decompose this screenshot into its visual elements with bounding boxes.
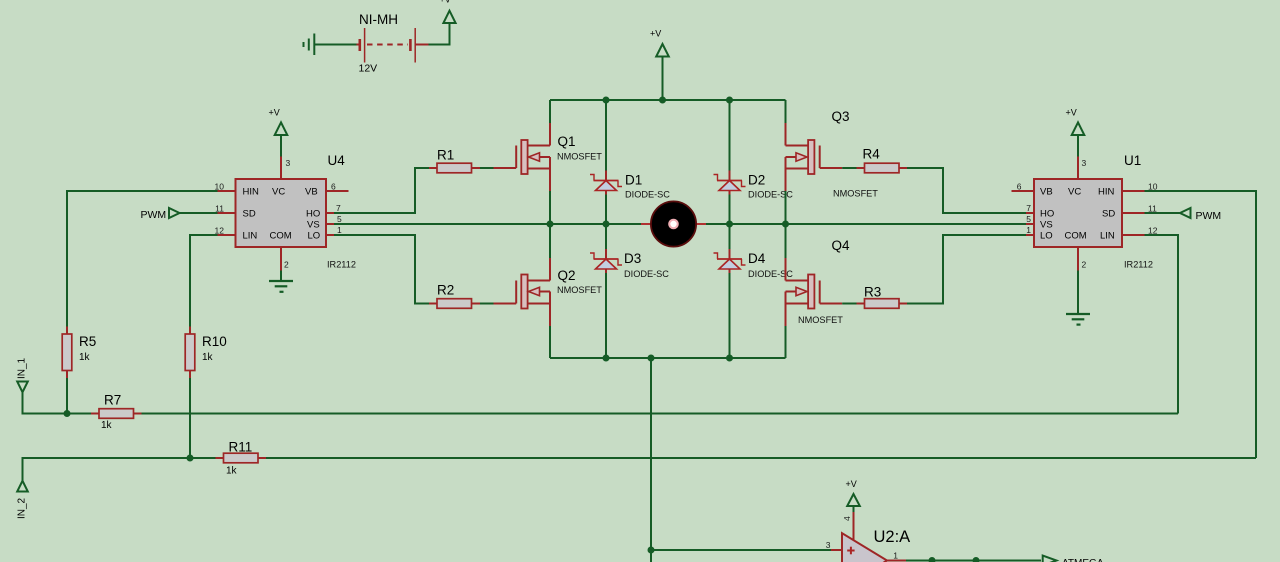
svg-text:U4: U4 (328, 153, 346, 168)
svg-text:1k: 1k (202, 352, 214, 363)
terminal IN_2 (17, 481, 28, 492)
wire battery-pos to +V (415, 44, 428, 46)
motor pin stubs (641, 223, 652, 225)
wire op-amp output to ATMEGA (906, 560, 1041, 562)
svg-text:4: 4 (842, 516, 852, 521)
terminal ATMEGA (1043, 556, 1057, 562)
power +V (battery) (443, 11, 455, 23)
wire op-amp +input (651, 549, 832, 551)
svg-text:1: 1 (337, 225, 342, 235)
svg-text:DIODE-SC: DIODE-SC (624, 269, 669, 279)
node out A (929, 557, 936, 562)
svg-text:6: 6 (1017, 182, 1022, 192)
node mid D2 (726, 221, 733, 228)
battery NI-MH cell 2 (410, 28, 415, 63)
svg-text:COM: COM (270, 231, 292, 242)
battery NI-MH cell 1 (360, 28, 365, 63)
wire R5 to junction (66, 378, 68, 414)
motor (651, 201, 696, 246)
svg-text:Q1: Q1 (558, 134, 576, 149)
wire D2 (729, 100, 731, 171)
node opamp in (648, 547, 655, 554)
svg-text:NI-MH: NI-MH (359, 12, 398, 27)
U4 pin stubs (218, 157, 349, 271)
wire R11 to U1.HIN drop (266, 457, 1256, 459)
svg-text:+V: +V (846, 479, 857, 489)
wire U2 pin4 to +V (853, 506, 855, 512)
svg-text:1k: 1k (101, 420, 113, 431)
wire Q4 gate to R3 (842, 303, 856, 305)
svg-text:7: 7 (336, 203, 341, 213)
svg-text:10: 10 (1148, 182, 1158, 192)
svg-text:NMOSFET: NMOSFET (557, 152, 602, 162)
transistor Q1 (494, 134, 603, 174)
diode D1 (590, 171, 670, 200)
svg-text:Q4: Q4 (832, 238, 851, 253)
svg-text:PWM: PWM (1196, 210, 1222, 222)
transistor Q2 (494, 268, 603, 308)
wire Q3 drain up (785, 100, 787, 123)
resistor R5 (62, 327, 96, 379)
svg-text:VS: VS (1040, 220, 1053, 231)
resistor R1 (429, 148, 480, 173)
wire R7 to U1.LIN drop (142, 413, 1179, 415)
wire stub below junction A (931, 561, 933, 562)
wire Q4 drain up (785, 224, 787, 258)
wire U1.LIN right and down (1145, 235, 1179, 414)
node R10/R11 (187, 455, 194, 462)
node out B (973, 557, 980, 562)
svg-text:2: 2 (1082, 260, 1087, 270)
svg-text:+V: +V (269, 108, 280, 118)
wire IN_2 to R11 line (23, 458, 216, 481)
svg-text:R3: R3 (864, 285, 881, 300)
svg-text:+V: +V (1066, 108, 1077, 118)
power +V (U4) (275, 122, 288, 135)
svg-text:3: 3 (286, 158, 291, 168)
svg-text:U2:A: U2:A (874, 528, 911, 546)
node top D1 (603, 97, 610, 104)
wire Q2 source down (549, 292, 551, 327)
wire Q3 source down (785, 157, 787, 191)
svg-text:2: 2 (284, 260, 289, 270)
wire top rail (550, 99, 786, 101)
wire U4.VC to +V (280, 135, 282, 157)
resistor R10 (185, 327, 227, 379)
svg-text:LO: LO (1040, 231, 1053, 242)
wire battery-neg (314, 44, 356, 46)
svg-text:IR2112: IR2112 (327, 260, 356, 270)
power +V (U2) (847, 494, 860, 506)
svg-text:1: 1 (893, 551, 898, 561)
svg-text:LIN: LIN (1100, 231, 1115, 242)
wire U1.VC to +V (1077, 135, 1079, 157)
resistor R2 (429, 283, 480, 309)
chip U4 body (IR2112) (236, 179, 327, 247)
svg-text:PWM: PWM (141, 209, 167, 221)
power +V (bridge) (656, 44, 669, 57)
wire +V drop (bridge) (662, 57, 664, 101)
svg-text:HO: HO (1040, 209, 1054, 220)
terminal IN_1 (17, 382, 28, 393)
svg-text:D2: D2 (748, 173, 765, 188)
svg-text:R1: R1 (437, 148, 454, 163)
svg-text:COM: COM (1065, 231, 1087, 242)
wire R10 to junction (189, 378, 191, 458)
svg-text:NMOSFET: NMOSFET (833, 189, 878, 199)
battery dashed link (367, 44, 408, 46)
ground (U4) (269, 281, 293, 292)
svg-text:11: 11 (215, 204, 224, 214)
wire U4.HIN to R5 (67, 191, 218, 327)
svg-text:5: 5 (1026, 214, 1031, 224)
svg-text:R11: R11 (229, 440, 253, 455)
svg-text:IN_2: IN_2 (17, 497, 28, 519)
wire U4.LIN to R10 (190, 235, 218, 327)
svg-text:VC: VC (272, 187, 285, 198)
wire D3 (605, 224, 607, 249)
svg-text:R5: R5 (79, 334, 96, 349)
wire R3 to U1.LO (907, 235, 1026, 304)
wire D4 (729, 224, 731, 249)
svg-text:LIN: LIN (243, 231, 258, 242)
svg-text:Q2: Q2 (558, 268, 576, 283)
svg-text:LO: LO (308, 231, 321, 242)
svg-text:DIODE-SC: DIODE-SC (625, 190, 670, 200)
wire PWM to U4.SD (180, 212, 218, 214)
svg-text:D1: D1 (625, 173, 642, 188)
wire bottom rail (550, 357, 786, 359)
svg-text:HO: HO (306, 209, 320, 220)
svg-text:12: 12 (215, 226, 225, 236)
svg-text:5: 5 (337, 214, 342, 224)
wire U1.COM to ground (1077, 270, 1079, 314)
terminal PWM (right) (1180, 208, 1191, 218)
svg-text:NMOSFET: NMOSFET (798, 315, 843, 325)
node mid D1 (603, 221, 610, 228)
svg-text:D4: D4 (748, 251, 766, 266)
svg-text:3: 3 (1082, 158, 1087, 168)
svg-text:3: 3 (826, 540, 831, 550)
svg-text:+V: +V (440, 0, 451, 5)
svg-text:HIN: HIN (243, 187, 260, 198)
svg-text:10: 10 (215, 182, 225, 192)
wire D1 (605, 100, 607, 171)
resistor R11 (216, 440, 267, 477)
svg-text:VC: VC (1068, 187, 1081, 198)
wire U1.SD to PWM (1145, 212, 1181, 214)
wire Q4 source down (785, 292, 787, 327)
wire Q1 drain up (549, 100, 551, 123)
svg-text:R4: R4 (863, 147, 881, 162)
svg-text:Q3: Q3 (832, 109, 850, 124)
wire Q3 gate to R4 (842, 167, 856, 169)
resistor R3 (857, 285, 908, 309)
wire Q2 drain up (549, 224, 551, 258)
svg-text:SD: SD (243, 209, 256, 220)
svg-text:IR2112: IR2112 (1124, 260, 1153, 270)
diode D3 (590, 249, 669, 279)
svg-text:SD: SD (1102, 209, 1115, 220)
wire R1 to Q1 gate (480, 167, 494, 169)
svg-text:R2: R2 (437, 283, 454, 298)
wire R4 to U1.HO (907, 168, 1026, 213)
svg-text:7: 7 (1026, 203, 1031, 213)
svg-text:R10: R10 (202, 334, 227, 349)
U1 pin stubs (1012, 157, 1145, 271)
diode D2 (714, 171, 794, 200)
svg-text:VB: VB (1040, 187, 1053, 198)
node bot D4 (726, 355, 733, 362)
transistor Q3 (786, 109, 879, 199)
wire Q1 source down (549, 157, 551, 191)
power +V (U1) (1072, 122, 1085, 135)
svg-text:6: 6 (331, 182, 336, 192)
transistor Q4 (786, 238, 851, 325)
svg-text:12: 12 (1148, 226, 1158, 236)
svg-text:1k: 1k (79, 352, 91, 363)
op-amp U2:A (826, 512, 910, 562)
chip U1 body (1034, 179, 1122, 247)
ground (U1) (1066, 314, 1090, 325)
wire stub below junction B (975, 561, 977, 562)
svg-text:NMOSFET: NMOSFET (557, 285, 602, 295)
svg-text:1k: 1k (226, 466, 238, 477)
svg-text:12V: 12V (359, 63, 378, 75)
svg-text:ATMEGA: ATMEGA (1062, 558, 1104, 562)
svg-text:+V: +V (650, 29, 661, 39)
wire R2 to Q2 gate (480, 303, 494, 305)
svg-text:D3: D3 (624, 251, 641, 266)
node mid Q3 (782, 221, 789, 228)
svg-text:VS: VS (307, 220, 320, 231)
wire U4.LO to R2 (334, 235, 429, 304)
node bot D3 (603, 355, 610, 362)
node mid Q1 (547, 221, 554, 228)
wire U4.HO to R1 (334, 168, 429, 213)
svg-text:11: 11 (1148, 204, 1157, 214)
resistor R7 (91, 393, 142, 432)
diode D4 (714, 249, 794, 279)
wire U4.VS rail (to motor line) (334, 223, 641, 225)
svg-text:VB: VB (305, 187, 318, 198)
svg-text:HIN: HIN (1098, 187, 1115, 198)
svg-text:R7: R7 (104, 393, 121, 408)
ground (battery, rotated left) (304, 34, 315, 56)
svg-text:U1: U1 (1124, 153, 1141, 168)
wire U1.HIN right and down (1145, 191, 1257, 458)
svg-text:IN_1: IN_1 (17, 357, 28, 379)
terminal PWM (left) (169, 208, 180, 218)
node top +V (659, 97, 666, 104)
node top D2 (726, 97, 733, 104)
wire IN_1 to R7 line (23, 392, 92, 413)
wire bridge to op-amp (650, 358, 652, 562)
node R5/R7 (64, 410, 71, 417)
resistor R4 (857, 147, 908, 173)
node bot opamp (648, 355, 655, 362)
svg-text:1: 1 (1026, 225, 1031, 235)
wire U4.COM to ground (280, 270, 282, 281)
